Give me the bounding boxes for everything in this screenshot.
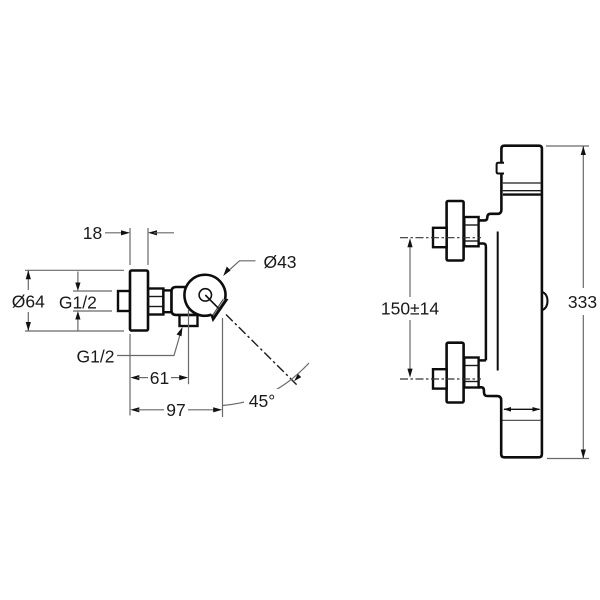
dim O64 vertical line bottom segment [27, 312, 29, 331]
dim G1/2 extension line top [73, 290, 112, 292]
dim 150+-14 arrow down [407, 369, 412, 378]
svg-text:45°: 45° [249, 391, 275, 411]
dim 97 extension line right (45deg outlet line) [222, 318, 224, 417]
dim 333 extension line bottom [547, 458, 589, 460]
column mid left edge between inlets [497, 232, 499, 371]
dim 97 extension line left [129, 384, 131, 416]
dim 150+-14 vertical line upper segment [409, 243, 411, 297]
dim 61 line right segment [171, 377, 182, 379]
dim 18 arrow right (pointing left) [148, 230, 157, 235]
bottom nut chamfer line upper [464, 365, 478, 367]
dim 61 arrow left [130, 375, 139, 380]
svg-text:150±14: 150±14 [381, 299, 440, 319]
valve body (side view) [172, 287, 198, 315]
dim O64 extension line bottom [25, 330, 124, 332]
svg-text:333: 333 [568, 292, 597, 312]
knob inner circle [199, 289, 211, 301]
bottom nut chamfer line lower [464, 381, 478, 383]
nut chamfer line upper [148, 296, 163, 298]
dim O64 vertical line top segment [27, 270, 29, 290]
dim 18 extension line left [129, 228, 131, 265]
handle tab on left edge [497, 163, 504, 174]
top inlet pipe lower edge merging into bridge plate edge [478, 244, 486, 361]
bottom inlet stub (front view) [433, 369, 447, 388]
grip groove line with end ticks [504, 408, 540, 410]
knob radius line to outlet [205, 295, 218, 308]
svg-text:18: 18 [83, 223, 102, 243]
dim O64 arrow up [26, 270, 31, 279]
union nut (side view) [148, 289, 163, 315]
dim 18 arrow left (pointing right) [121, 230, 130, 235]
top wall flange (front view) [447, 201, 464, 261]
bottom inlet pipe upper edge meeting bridge plate [478, 359, 486, 362]
dim 333 extension line top [546, 145, 589, 147]
control knob circle with 45 deg outlet chamfer [176, 266, 236, 326]
leader G1/2 arrowhead [177, 327, 183, 336]
collar thread stripe 2 [210, 300, 228, 318]
dim 97 arrow right [213, 407, 222, 412]
top inlet pipe upper edge with S-flare [478, 208, 501, 220]
bottom centerline dash-dot [400, 378, 481, 380]
dim O64 arrow down [26, 322, 31, 331]
cap joint thick line [503, 193, 541, 195]
svg-text:Ø43: Ø43 [263, 252, 296, 272]
bottom union nut (front view) [464, 358, 478, 388]
dim 18 line right segment [154, 232, 174, 234]
dim 97 arrow left [130, 407, 139, 412]
bottom outlet G1/2 (side view) [180, 315, 198, 326]
white gap behind 45 label [244, 389, 280, 409]
45 deg arc [223, 363, 309, 406]
wall flange (side view) [130, 271, 148, 331]
dim 61 extension line right (outlet centerline) [188, 310, 190, 384]
bottom wall flange (front view) [447, 343, 464, 403]
bottom inlet pipe lower edge with S-flare [478, 387, 501, 400]
dim G1/2 arrow up to bottom line [77, 318, 79, 332]
dim 150+-14 arrow up [407, 238, 412, 247]
dim G1/2 arrow down to top line [77, 272, 79, 285]
svg-text:Ø64: Ø64 [12, 292, 45, 312]
cap ring line 1 [503, 182, 541, 184]
dim 333 vertical line top segment [582, 146, 584, 288]
cap ring line 2 [503, 190, 541, 192]
leader O43 [227, 261, 256, 273]
dim 18 line left segment [105, 232, 124, 234]
dim 333 arrow up [581, 146, 586, 155]
dim O64 extension line top [25, 269, 124, 271]
dim 18 extension line right [147, 228, 149, 265]
top nut chamfer line lower [464, 240, 478, 242]
collar thread stripe 1 [209, 299, 226, 316]
45 deg dash-dot axis line [226, 315, 297, 386]
svg-text:G1/2: G1/2 [59, 293, 97, 313]
connector piece (side view) [163, 290, 171, 312]
svg-text:61: 61 [150, 368, 169, 388]
top inlet stub (front view) [433, 228, 447, 247]
dim 333 arrow down [581, 450, 586, 459]
top centerline dash-dot [400, 237, 481, 239]
lower joint thin line [503, 419, 542, 421]
top nut chamfer line upper [464, 224, 478, 226]
mixer column outline (top edge, right edge, bottom edge, partial left edges) [501, 146, 542, 458]
dim 61 extension line left [129, 334, 131, 384]
dim G1/2 extension line bottom [73, 310, 112, 312]
hose outlet collar fill [209, 299, 229, 319]
dim 61 line left segment [137, 377, 148, 379]
outlet boss bump on right edge [542, 292, 548, 311]
collar outline [209, 299, 229, 319]
mixer column body fill [499, 146, 542, 457]
dim 97 line left segment [137, 409, 164, 411]
svg-text:97: 97 [166, 400, 185, 420]
nut chamfer line lower [148, 306, 163, 308]
inlet stub (side view) [118, 291, 130, 311]
dim 333 vertical line bottom segment [582, 315, 584, 459]
leader G1/2 lower [117, 333, 181, 356]
leader O43 arrowhead [223, 267, 230, 277]
svg-text:G1/2: G1/2 [77, 347, 115, 367]
knob circle arc [176, 266, 232, 322]
top union nut (front view) [464, 217, 478, 246]
45 deg arc arrowhead at dashed line [294, 374, 301, 381]
dim 61 arrow right [179, 375, 188, 380]
dim 150+-14 vertical line lower segment [409, 320, 411, 374]
dim 97 line right segment [188, 409, 215, 411]
